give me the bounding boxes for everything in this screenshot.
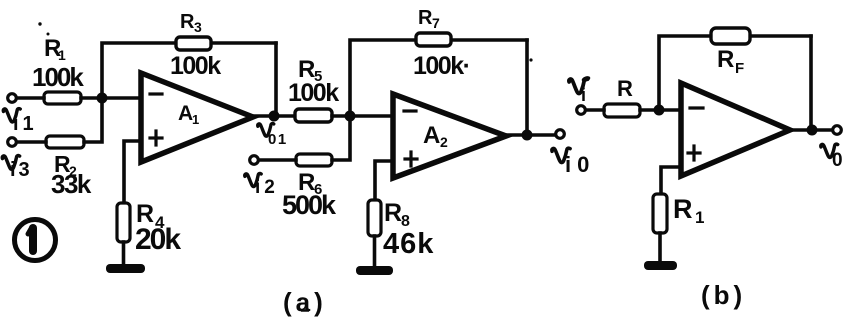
svg-text:R: R <box>673 194 693 224</box>
svg-text:R: R <box>384 199 402 227</box>
svg-text:3: 3 <box>194 19 202 35</box>
svg-text:33k: 33k <box>51 169 92 199</box>
svg-text:R: R <box>180 11 195 33</box>
svg-text:2: 2 <box>440 134 448 150</box>
svg-text:R: R <box>617 76 633 101</box>
svg-text:7: 7 <box>432 15 440 31</box>
svg-text:(b): (b) <box>701 280 746 310</box>
svg-text:(a): (a) <box>283 287 327 317</box>
svg-text:i1: i1 <box>13 113 38 135</box>
svg-text:R: R <box>717 46 734 73</box>
svg-text:1: 1 <box>58 47 66 63</box>
svg-text:01: 01 <box>268 131 288 148</box>
svg-text:100k·: 100k· <box>413 52 469 80</box>
svg-text:20k: 20k <box>135 223 181 256</box>
svg-text:1: 1 <box>192 112 199 127</box>
svg-text:100k: 100k <box>170 52 221 80</box>
svg-text:i: i <box>581 85 586 105</box>
svg-text:500k: 500k <box>282 190 337 220</box>
svg-text:A: A <box>178 102 193 125</box>
svg-text:A: A <box>423 122 440 149</box>
svg-text:i2: i2 <box>255 177 279 198</box>
svg-text:i0: i0 <box>565 152 595 177</box>
svg-text:F: F <box>735 60 744 77</box>
svg-text:100k: 100k <box>288 79 339 107</box>
svg-text:i3: i3 <box>10 159 33 181</box>
svg-text:100k: 100k <box>32 62 84 92</box>
svg-text:R: R <box>418 7 433 29</box>
svg-text:0: 0 <box>832 150 843 171</box>
svg-text:46k: 46k <box>383 228 434 260</box>
svg-text:1: 1 <box>695 208 704 227</box>
